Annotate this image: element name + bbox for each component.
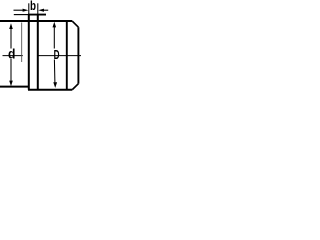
- wire: dimension d line upper with arrowhead: [10, 29, 12, 49]
- wire: shaft top outline edge: [0, 20, 72, 22]
- wire: dimension D line lower with arrowhead: [53, 60, 56, 84]
- wire: centerline left segment: [3, 55, 23, 57]
- svg-text:d: d: [8, 47, 15, 62]
- wire: shaft end face: [77, 27, 79, 83]
- ring R1 right face: [37, 14, 39, 90]
- wire: shaft bottom outline edge (under ring to chamfer): [28, 89, 72, 91]
- svg-text:D: D: [54, 47, 60, 62]
- wire: dimension d line lower with arrowhead: [10, 59, 12, 82]
- wire: dimension b line right with arrowhead: [43, 9, 48, 11]
- wire: bottom chamfer: [72, 84, 78, 90]
- ring R1 top edge: [28, 14, 46, 16]
- svg-text:b: b: [30, 0, 36, 13]
- wire: centerline right segment: [38, 55, 81, 57]
- wire: chamfer root edge on shaft: [66, 21, 68, 89]
- wire: dimension D line upper with arrowhead: [53, 27, 55, 49]
- background: [0, 0, 81, 96]
- wire: shaft bottom outline edge (left of ring): [0, 86, 29, 88]
- wire: dimension b extension line right: [37, 3, 39, 14]
- wire: light extension line at groove: [21, 23, 23, 63]
- wire: dimension b extension line left: [28, 3, 30, 14]
- ring R1 left face: [28, 14, 30, 90]
- wire: top chamfer: [72, 21, 78, 27]
- wire: dimension b line left with arrowhead: [14, 9, 24, 11]
- wire: extension line at ring top: [14, 14, 28, 16]
